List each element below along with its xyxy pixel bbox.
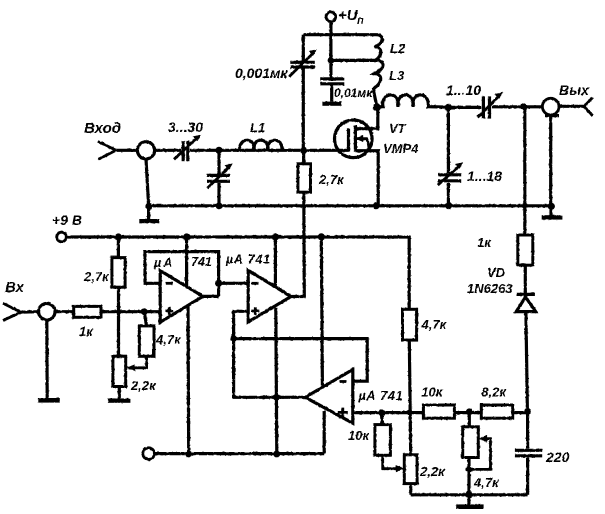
svg-text:L2: L2	[390, 41, 406, 56]
svg-text:VT: VT	[389, 121, 407, 136]
svg-text:220: 220	[545, 449, 570, 465]
svg-text:Вх: Вх	[5, 279, 25, 296]
svg-text:µА: µА	[153, 256, 174, 270]
svg-text:+U: +U	[338, 7, 359, 24]
svg-text:4,7к: 4,7к	[155, 332, 182, 347]
svg-text:L1: L1	[250, 120, 265, 135]
svg-text:L3: L3	[389, 68, 405, 83]
svg-text:8,2к: 8,2к	[481, 385, 507, 400]
svg-text:3...30: 3...30	[168, 119, 203, 135]
svg-text:741: 741	[191, 255, 212, 269]
svg-text:µА 741: µА 741	[225, 253, 271, 267]
svg-text:2,2к: 2,2к	[130, 378, 157, 393]
svg-text:2,7к: 2,7к	[318, 172, 345, 187]
svg-text:0,01мк: 0,01мк	[334, 86, 373, 100]
svg-text:п: п	[357, 15, 364, 27]
svg-text:Вход: Вход	[84, 120, 121, 137]
svg-text:10к: 10к	[421, 385, 443, 400]
svg-text:4,7к: 4,7к	[473, 475, 500, 490]
svg-text:1...10: 1...10	[446, 82, 481, 98]
svg-text:µА 741: µА 741	[358, 389, 404, 403]
svg-text:1к: 1к	[79, 324, 94, 339]
svg-text:1к: 1к	[477, 235, 492, 250]
svg-text:0,001мк: 0,001мк	[235, 65, 288, 81]
svg-text:VМР4: VМР4	[383, 141, 419, 156]
svg-text:2,7к: 2,7к	[83, 269, 110, 284]
svg-text:4,7к: 4,7к	[421, 317, 448, 332]
svg-text:10к: 10к	[348, 428, 370, 443]
svg-text:1N6263: 1N6263	[467, 281, 513, 296]
svg-text:VD: VD	[487, 265, 506, 280]
svg-text:1...18: 1...18	[467, 168, 502, 184]
svg-text:Вых: Вых	[559, 82, 590, 98]
svg-text:2,2к: 2,2к	[419, 464, 446, 479]
svg-text:+9 В: +9 В	[52, 212, 82, 228]
